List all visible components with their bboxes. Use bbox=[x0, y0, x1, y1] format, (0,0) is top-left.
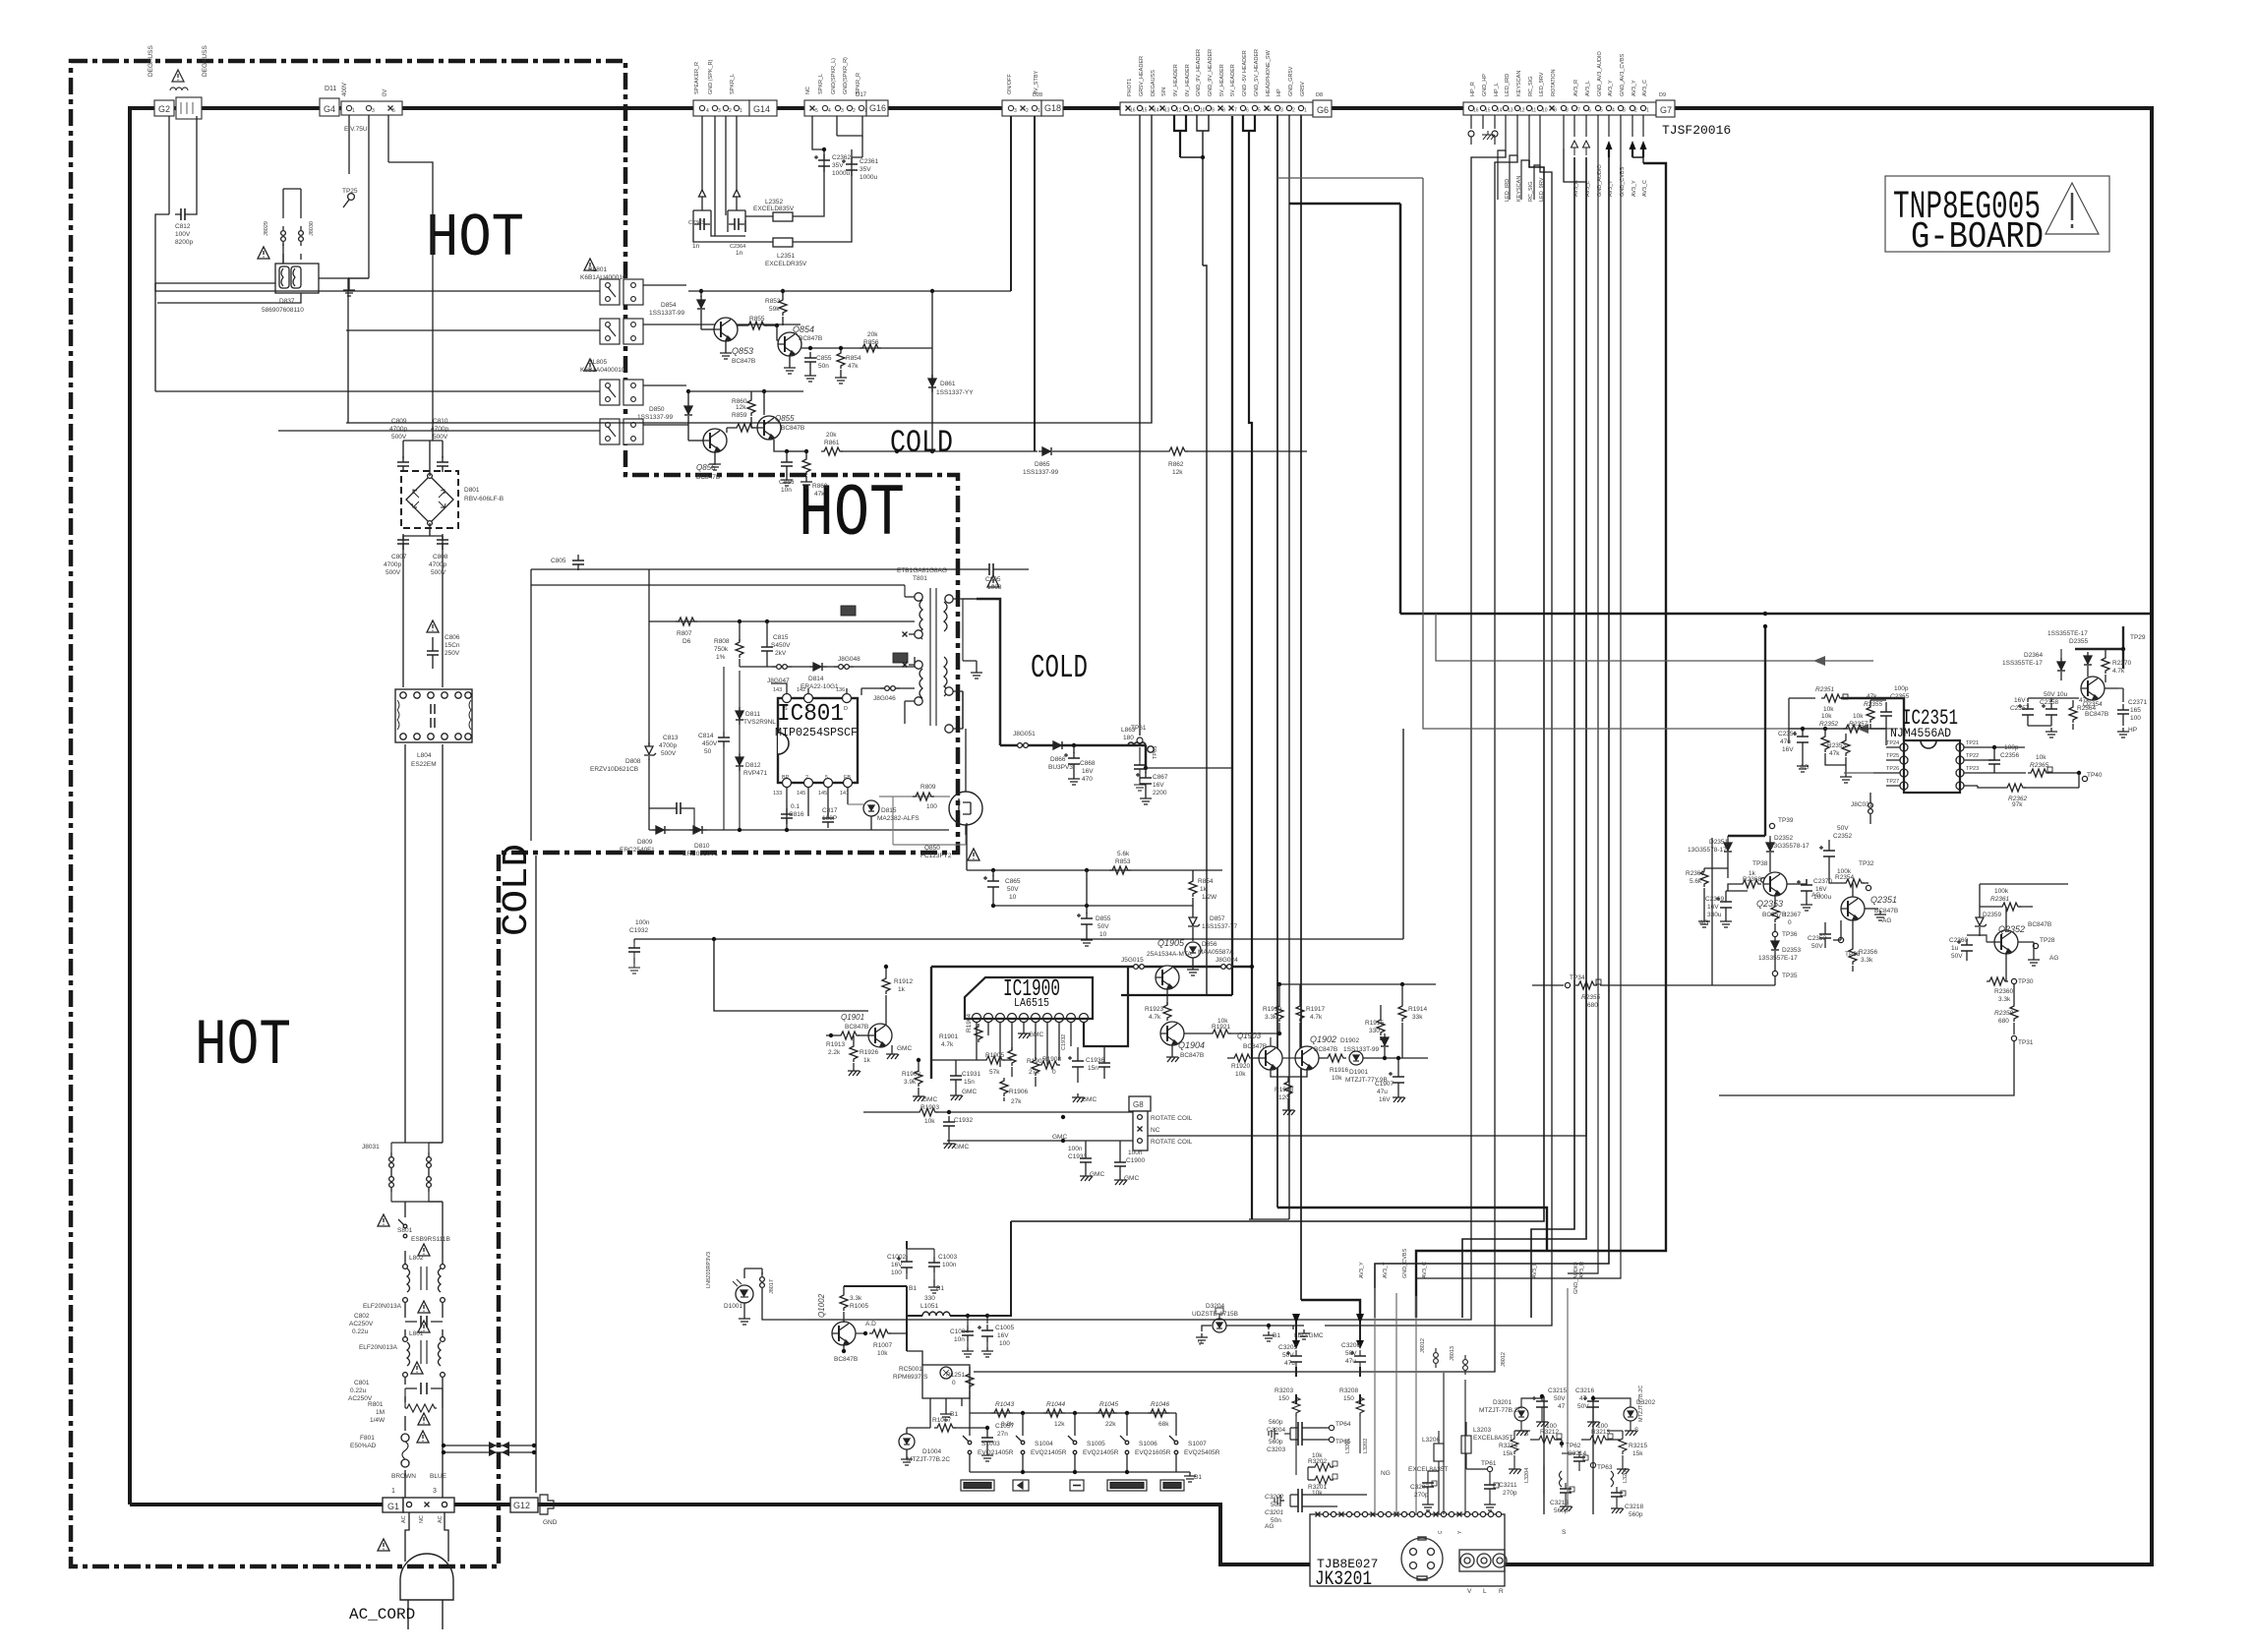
svg-text:R853: R853 bbox=[1115, 858, 1131, 865]
transistor Q1903 bbox=[1259, 1046, 1282, 1070]
jumper J8G047 bbox=[772, 665, 792, 670]
inductor L2352 EXCELD835V bbox=[773, 212, 793, 221]
svg-text:R1913: R1913 bbox=[826, 1041, 846, 1048]
s-video bbox=[1401, 1537, 1507, 1580]
svg-text:V: V bbox=[1467, 1588, 1472, 1595]
svg-text:ERC2540F1: ERC2540F1 bbox=[620, 847, 655, 854]
svg-text:T801: T801 bbox=[913, 575, 927, 582]
svg-text:Q853: Q853 bbox=[732, 346, 753, 356]
svg-text:C814: C814 bbox=[698, 733, 714, 739]
resistor R1913 2.2k bbox=[838, 1032, 860, 1039]
svg-text:C805: C805 bbox=[985, 576, 1001, 583]
svg-text:J8012: J8012 bbox=[1501, 1352, 1507, 1367]
svg-text:3: 3 bbox=[1014, 108, 1017, 114]
zener D1004 MTZJT-77B.2C bbox=[899, 1434, 915, 1449]
capacitor C868 470u bbox=[1064, 752, 1080, 770]
wire GND_AV3_AUDIO bbox=[1568, 145, 1598, 1273]
svg-text:G8: G8 bbox=[1133, 1100, 1144, 1109]
svg-text:1SS133T-99: 1SS133T-99 bbox=[649, 310, 685, 317]
resistor R3201 10k bbox=[1312, 1476, 1334, 1484]
wire AV3_R bbox=[1531, 157, 1574, 1318]
svg-text:RVP471: RVP471 bbox=[743, 770, 767, 777]
svg-text:DEGAUSS: DEGAUSS bbox=[148, 45, 154, 77]
diode D811 bbox=[736, 707, 743, 725]
svg-text:GMC: GMC bbox=[962, 1089, 977, 1095]
resistor R2367 0 bbox=[1771, 904, 1779, 922]
svg-text:50V: 50V bbox=[1577, 1403, 1589, 1410]
svg-text:COLD: COLD bbox=[1031, 650, 1088, 686]
MOSFET Q850 FC123FY2 bbox=[949, 792, 982, 825]
svg-text:1: 1 bbox=[864, 108, 867, 114]
svg-text:50V: 50V bbox=[1345, 1350, 1357, 1357]
svg-text:R1904: R1904 bbox=[966, 1013, 973, 1032]
svg-text:47k: 47k bbox=[1829, 750, 1840, 757]
svg-text:180: 180 bbox=[1123, 735, 1134, 741]
svg-text:10: 10 bbox=[1009, 894, 1017, 901]
svg-text:R1902: R1902 bbox=[902, 1071, 921, 1078]
jumper J8G048 bbox=[834, 665, 854, 670]
grey signal wires w/ labels above jack bbox=[1375, 1288, 1416, 1514]
resistor R1919 3.3k bbox=[1275, 1003, 1283, 1022]
svg-text:C805: C805 bbox=[551, 558, 566, 564]
resistor R1043 8.8k bbox=[991, 1409, 1013, 1417]
svg-text:1000u: 1000u bbox=[832, 170, 850, 177]
svg-text:C817: C817 bbox=[822, 807, 838, 814]
svg-text:50V: 50V bbox=[1282, 1352, 1294, 1359]
capacitor C1936 15n bbox=[1098, 1057, 1110, 1073]
capacitor C3213 560p bbox=[1560, 1483, 1572, 1499]
svg-text:97k: 97k bbox=[2012, 801, 2023, 808]
svg-text:S: S bbox=[1562, 1529, 1567, 1536]
svg-text:LA6515: LA6515 bbox=[1014, 997, 1049, 1010]
svg-text:D3201: D3201 bbox=[1493, 1399, 1513, 1406]
resistor R1906 27k bbox=[1000, 1078, 1008, 1096]
svg-text:R1921: R1921 bbox=[1212, 1024, 1231, 1031]
svg-text:47: 47 bbox=[1558, 1403, 1566, 1410]
svg-text:R1917: R1917 bbox=[1306, 1006, 1326, 1013]
top rail from bridge+ to transformer bbox=[531, 569, 983, 841]
svg-text:D8: D8 bbox=[1316, 92, 1323, 98]
svg-text:BP: BP bbox=[782, 775, 790, 781]
svg-text:4: 4 bbox=[1269, 108, 1272, 114]
svg-text:D866: D866 bbox=[1050, 756, 1066, 763]
connector G2 bbox=[154, 100, 174, 116]
svg-text:14: 14 bbox=[1497, 108, 1503, 114]
svg-text:B1: B1 bbox=[909, 1285, 917, 1292]
svg-text:F801: F801 bbox=[360, 1435, 375, 1442]
svg-text:0V: 0V bbox=[383, 89, 388, 96]
resistor R2352 10k bbox=[1821, 734, 1829, 752]
svg-text:AV3_Y: AV3_Y bbox=[1608, 180, 1614, 197]
svg-text:RL801: RL801 bbox=[588, 266, 608, 273]
svg-text:L804: L804 bbox=[417, 752, 432, 759]
svg-text:L3204: L3204 bbox=[1524, 1468, 1530, 1483]
svg-text:1k: 1k bbox=[863, 1057, 871, 1064]
resistor R1908 0 bbox=[1038, 1061, 1060, 1069]
svg-text:0: 0 bbox=[952, 1380, 956, 1386]
svg-text:12k: 12k bbox=[1172, 469, 1183, 476]
svg-text:L2351: L2351 bbox=[777, 253, 795, 260]
svg-text:MIP0254SPSCF: MIP0254SPSCF bbox=[775, 726, 858, 739]
svg-text:C856: C856 bbox=[779, 479, 795, 486]
svg-text:NJM4556AD: NJM4556AD bbox=[1890, 727, 1951, 740]
svg-text:12: 12 bbox=[1176, 108, 1182, 114]
svg-text:560p: 560p bbox=[1269, 1439, 1283, 1445]
svg-text:B1: B1 bbox=[936, 1285, 944, 1292]
svg-text:C3202: C3202 bbox=[1265, 1494, 1284, 1501]
svg-text:141: 141 bbox=[840, 791, 849, 796]
wires ON/OFF and 9V_STBY bbox=[1011, 116, 1035, 451]
svg-text:R2351: R2351 bbox=[1815, 686, 1835, 693]
G6/G7 vertical pin labels bbox=[1007, 49, 1666, 202]
svg-text:AC250V: AC250V bbox=[349, 1321, 374, 1327]
svg-text:EXCELD835V: EXCELD835V bbox=[753, 206, 795, 212]
svg-text:TP61: TP61 bbox=[1481, 1460, 1497, 1467]
wire 9R5V to Q2353 bbox=[1764, 626, 1766, 836]
svg-text:MA2382-ALFS: MA2382-ALFS bbox=[877, 815, 919, 822]
svg-text:C802: C802 bbox=[354, 1313, 370, 1320]
svg-text:C2358: C2358 bbox=[2040, 699, 2059, 706]
svg-text:D811: D811 bbox=[745, 711, 760, 718]
resistor R1007 10k bbox=[869, 1329, 891, 1337]
svg-text:50V: 50V bbox=[1007, 886, 1019, 893]
svg-text:500V: 500V bbox=[661, 750, 677, 757]
svg-text:C865: C865 bbox=[1005, 878, 1021, 885]
svg-text:8: 8 bbox=[1222, 108, 1225, 114]
svg-text:16: 16 bbox=[1130, 108, 1136, 114]
svg-text:C867: C867 bbox=[1153, 774, 1168, 781]
svg-text:EVQ21405R: EVQ21405R bbox=[978, 1449, 1014, 1456]
svg-text:3: 3 bbox=[1623, 108, 1626, 114]
G4 wires down bbox=[348, 115, 369, 278]
jumper J8012 bbox=[1434, 1348, 1439, 1368]
svg-text:AV3_L: AV3_L bbox=[1585, 81, 1591, 96]
svg-text:S1004: S1004 bbox=[1035, 1441, 1053, 1447]
svg-text:C813: C813 bbox=[663, 735, 679, 741]
svg-text:D11: D11 bbox=[325, 86, 336, 92]
capacitor C3211 270p bbox=[1484, 1479, 1496, 1495]
svg-text:R1914: R1914 bbox=[1408, 1006, 1428, 1013]
svg-text:J8030: J8030 bbox=[309, 221, 315, 236]
TP34/R2355 bbox=[1532, 984, 1564, 986]
diode D865 bbox=[1038, 447, 1056, 455]
resistor R1914 33k bbox=[1398, 1003, 1406, 1022]
svg-text:C1932: C1932 bbox=[629, 927, 649, 934]
svg-text:R1045: R1045 bbox=[1099, 1401, 1119, 1408]
capacitor C1005 100u bbox=[978, 1325, 993, 1342]
svg-text:R2356: R2356 bbox=[1859, 949, 1878, 956]
opto-coupler D815 MA2382-ALFS bbox=[863, 800, 879, 816]
resistor R809 100 bbox=[913, 793, 934, 800]
resistor R3213 100 bbox=[1587, 1436, 1609, 1444]
svg-text:330u: 330u bbox=[1707, 912, 1722, 918]
resistor R1918 120 bbox=[1284, 1079, 1292, 1097]
resistor R1915 330 bbox=[1377, 1017, 1385, 1035]
svg-text:R3203: R3203 bbox=[1275, 1387, 1294, 1394]
inductor L3203 EXCEL8A35T bbox=[1461, 1436, 1471, 1453]
svg-text:AG: AG bbox=[1800, 764, 1809, 771]
resistor R1017 10k bbox=[934, 1424, 956, 1432]
diode D2352 bbox=[1766, 839, 1774, 856]
svg-text:ES22EM: ES22EM bbox=[411, 761, 437, 768]
svg-text:R1919: R1919 bbox=[1263, 1006, 1282, 1013]
capacitor C2369 330u bbox=[1716, 896, 1732, 914]
svg-text:HP: HP bbox=[2128, 727, 2137, 734]
svg-text:C2353: C2353 bbox=[1808, 935, 1827, 942]
svg-text:R853: R853 bbox=[765, 298, 781, 305]
svg-text:BC847B: BC847B bbox=[781, 425, 804, 432]
capacitor C2357 bbox=[2018, 703, 2034, 721]
svg-text:AV3_C: AV3_C bbox=[1422, 1262, 1428, 1278]
svg-text:3.9k: 3.9k bbox=[904, 1079, 917, 1086]
svg-text:Q2351: Q2351 bbox=[1870, 895, 1897, 905]
capacitor C1002 100u bbox=[897, 1256, 913, 1273]
capacitor C3215 47u bbox=[1532, 1395, 1548, 1413]
svg-text:D2364: D2364 bbox=[2024, 652, 2044, 659]
svg-text:S1003: S1003 bbox=[981, 1441, 1000, 1447]
svg-text:NC: NC bbox=[1151, 1127, 1160, 1134]
svg-text:L3205: L3205 bbox=[1623, 1468, 1629, 1483]
svg-text:150: 150 bbox=[1343, 1395, 1354, 1402]
capacitor C2356 100p bbox=[1988, 754, 2000, 770]
svg-text:0.22u: 0.22u bbox=[352, 1328, 369, 1335]
connector G8 (rotate coil) bbox=[1129, 1096, 1151, 1111]
svg-text:50: 50 bbox=[704, 748, 712, 755]
svg-text:50n: 50n bbox=[818, 363, 829, 370]
wire DEGAUSS bbox=[346, 115, 1152, 423]
svg-text:3: 3 bbox=[372, 108, 375, 114]
svg-text:100: 100 bbox=[1597, 1423, 1608, 1430]
svg-text:R856: R856 bbox=[863, 339, 879, 346]
svg-text:330: 330 bbox=[924, 1295, 935, 1302]
resistor R1923 4.7k bbox=[1163, 1002, 1171, 1021]
svg-text:GND_CVBS: GND_CVBS bbox=[1620, 166, 1626, 197]
svg-text:10k: 10k bbox=[1823, 706, 1834, 713]
capacitor C1932 47u bbox=[1068, 1055, 1084, 1073]
svg-text:COLD: COLD bbox=[497, 844, 537, 936]
svg-text:R1916: R1916 bbox=[1330, 1067, 1349, 1074]
boundary crossing wires with arrows bbox=[444, 1445, 534, 1452]
svg-text:GR5V: GR5V bbox=[1300, 82, 1306, 96]
svg-text:C2352: C2352 bbox=[1833, 833, 1853, 840]
line filter L804 ES22EM bbox=[395, 689, 472, 742]
svg-text:16V: 16V bbox=[1782, 746, 1794, 753]
svg-text:TP21: TP21 bbox=[1966, 740, 1979, 746]
svg-text:A.D: A.D bbox=[865, 1321, 876, 1327]
svg-text:4.7k: 4.7k bbox=[941, 1041, 954, 1048]
svg-text:6: 6 bbox=[1246, 108, 1249, 114]
svg-text:500V: 500V bbox=[391, 434, 407, 441]
transistor Q854 bbox=[778, 332, 801, 356]
resistor R1917 4.7k bbox=[1296, 1003, 1304, 1022]
svg-text:TP29: TP29 bbox=[2130, 634, 2146, 641]
svg-text:E.V.75U: E.V.75U bbox=[344, 126, 368, 133]
svg-text:1n: 1n bbox=[736, 250, 743, 257]
svg-text:BC847B: BC847B bbox=[834, 1356, 858, 1363]
input network left bbox=[1789, 697, 1815, 699]
capacitor C2361 1000u bbox=[842, 158, 858, 176]
svg-text:C2371: C2371 bbox=[2128, 699, 2148, 706]
svg-text:D850: D850 bbox=[649, 406, 665, 413]
svg-text:SPKR_L: SPKR_L bbox=[730, 74, 736, 94]
svg-text:C1002: C1002 bbox=[887, 1254, 907, 1261]
svg-text:HP_R: HP_R bbox=[1470, 82, 1476, 96]
resistor R2355 47k bbox=[1867, 704, 1874, 723]
capacitor C1900 100n bbox=[1114, 1156, 1126, 1172]
svg-text:1SS1337-99: 1SS1337-99 bbox=[1023, 469, 1059, 476]
svg-text:2: 2 bbox=[729, 108, 732, 114]
svg-text:LN8Z03RP3V3: LN8Z03RP3V3 bbox=[706, 1252, 712, 1288]
svg-text:C2351: C2351 bbox=[1778, 731, 1798, 737]
svg-text:AV3_Y: AV3_Y bbox=[1608, 80, 1614, 96]
svg-text:K6B1AU400010: K6B1AU400010 bbox=[580, 274, 626, 281]
zener D2359 bbox=[1975, 914, 1987, 931]
resistor R1902 3.9k bbox=[915, 1068, 922, 1087]
svg-text:35V: 35V bbox=[832, 162, 844, 169]
svg-text:D2359: D2359 bbox=[1983, 912, 2002, 918]
svg-text:BC847B: BC847B bbox=[799, 335, 822, 342]
svg-text:Q856: Q856 bbox=[696, 463, 716, 472]
svg-text:586907608110: 586907608110 bbox=[262, 307, 304, 314]
svg-text:TP34: TP34 bbox=[1570, 974, 1585, 981]
svg-text:TP31: TP31 bbox=[2018, 1039, 2034, 1046]
svg-text:1SS1337-YY: 1SS1337-YY bbox=[936, 389, 974, 396]
resistor R855 bbox=[745, 322, 767, 329]
svg-text:G1: G1 bbox=[387, 1502, 399, 1511]
switches S1003-S1007 EVQ21405R bbox=[963, 1436, 972, 1454]
svg-text:3: 3 bbox=[841, 108, 844, 114]
svg-text:6: 6 bbox=[1588, 108, 1591, 114]
svg-text:250V: 250V bbox=[445, 650, 460, 657]
capacitor C2362 1000u bbox=[814, 154, 830, 172]
svg-text:15k: 15k bbox=[1503, 1450, 1513, 1457]
capacitor C805 bbox=[983, 563, 999, 575]
svg-text:8.8k: 8.8k bbox=[1001, 1421, 1014, 1428]
L3204 / C3213 bbox=[1543, 1465, 1545, 1495]
svg-text:9: 9 bbox=[1554, 108, 1557, 114]
svg-text:AV3_R: AV3_R bbox=[1573, 180, 1579, 197]
svg-text:5.6k: 5.6k bbox=[1690, 878, 1702, 885]
svg-text:D856: D856 bbox=[1202, 941, 1217, 948]
svg-text:ROTATION: ROTATION bbox=[1551, 69, 1557, 96]
svg-text:D812: D812 bbox=[745, 762, 761, 769]
jumper J8G024 bbox=[1216, 965, 1236, 970]
svg-text:680: 680 bbox=[1998, 1018, 2009, 1025]
svg-text:GND_CVBS: GND_CVBS bbox=[1402, 1248, 1408, 1278]
svg-text:4: 4 bbox=[706, 108, 709, 114]
resistor R862 12k bbox=[1166, 447, 1188, 455]
transistor Q856 bbox=[703, 429, 727, 452]
svg-text:C3201: C3201 bbox=[1265, 1509, 1284, 1516]
resistor R3214 15k bbox=[1511, 1436, 1518, 1454]
svg-text:GND_AUDIO: GND_AUDIO bbox=[1573, 1262, 1579, 1294]
svg-text:2200: 2200 bbox=[1153, 790, 1167, 796]
svg-text:AV3_C: AV3_C bbox=[1642, 180, 1648, 197]
svg-text:C1005: C1005 bbox=[995, 1325, 1015, 1331]
svg-text:R1005: R1005 bbox=[850, 1303, 869, 1310]
jumper J8013 bbox=[1463, 1355, 1468, 1375]
svg-text:100: 100 bbox=[926, 803, 937, 810]
svg-text:50V: 50V bbox=[1554, 1395, 1566, 1402]
svg-text:Q2353: Q2353 bbox=[1756, 899, 1783, 909]
svg-text:47u: 47u bbox=[1780, 738, 1791, 745]
resistor R856 20k bbox=[860, 344, 881, 352]
relay RL801 K6B1AU400010 bbox=[600, 279, 620, 305]
diode D2351 bbox=[1724, 839, 1732, 856]
svg-text:470: 470 bbox=[1082, 776, 1093, 783]
svg-text:C2370: C2370 bbox=[1813, 878, 1833, 885]
capacitors C3202/C3201 50n bbox=[1292, 1489, 1308, 1501]
inductor L1051 330 bbox=[922, 1312, 950, 1316]
resistor R2368 1k bbox=[1740, 880, 1761, 888]
wire LED_9RV bbox=[1325, 165, 1552, 1326]
svg-text:7: 7 bbox=[1234, 108, 1237, 114]
svg-text:R3212: R3212 bbox=[1540, 1429, 1560, 1436]
resistor R807 bbox=[676, 618, 697, 625]
svg-text:TP25: TP25 bbox=[342, 188, 358, 195]
svg-text:C1003: C1003 bbox=[938, 1254, 958, 1261]
capacitor C1931 15n bbox=[950, 1070, 962, 1086]
svg-text:3: 3 bbox=[1280, 108, 1283, 114]
transistor Q2352 bbox=[1994, 930, 2018, 954]
svg-text:D810: D810 bbox=[694, 843, 710, 850]
svg-text:ERZV10D621CB: ERZV10D621CB bbox=[590, 766, 638, 773]
svg-text:ETB1GA81G8AG: ETB1GA81G8AG bbox=[897, 567, 947, 574]
svg-text:EXCEL8A35T: EXCEL8A35T bbox=[1473, 1435, 1513, 1442]
svg-text:C1907: C1907 bbox=[1375, 1081, 1394, 1088]
svg-text:L3206: L3206 bbox=[1422, 1437, 1440, 1444]
svg-text:10: 10 bbox=[1099, 931, 1107, 938]
svg-text:GND_HP: GND_HP bbox=[1482, 74, 1488, 96]
svg-text:20k: 20k bbox=[867, 331, 878, 338]
svg-text:J8G047: J8G047 bbox=[767, 678, 790, 684]
svg-text:SPKR_L: SPKR_L bbox=[818, 74, 824, 94]
svg-text:5V_HEADER: 5V_HEADER bbox=[1219, 64, 1225, 96]
svg-text:R1918: R1918 bbox=[1275, 1087, 1294, 1093]
svg-text:TP36: TP36 bbox=[1782, 931, 1798, 938]
svg-text:120: 120 bbox=[1278, 1094, 1289, 1101]
diode D809 bbox=[652, 826, 670, 834]
svg-text:TP35: TP35 bbox=[1782, 973, 1798, 979]
svg-text:Q2352: Q2352 bbox=[1998, 924, 2025, 934]
svg-text:C3213: C3213 bbox=[1550, 1500, 1570, 1506]
svg-text:AG: AG bbox=[1699, 919, 1708, 926]
jumpers J8029/J8030 bbox=[281, 226, 286, 246]
svg-text:R854: R854 bbox=[1198, 878, 1214, 885]
svg-text:C810: C810 bbox=[433, 418, 448, 425]
degauss posistor D837 bbox=[275, 264, 319, 293]
resistor R2357 10k bbox=[1843, 725, 1865, 733]
svg-text:16V: 16V bbox=[1815, 886, 1827, 893]
svg-text:35V: 35V bbox=[860, 166, 871, 173]
connector G14 (speaker) bbox=[693, 100, 749, 116]
svg-text:GMC: GMC bbox=[1090, 1171, 1104, 1178]
svg-text:DEGAUSS: DEGAUSS bbox=[202, 45, 208, 77]
jumpers J8031-34 bbox=[405, 1143, 443, 1202]
svg-text:8: 8 bbox=[1566, 108, 1569, 114]
svg-text:GND_9V_HEADER: GND_9V_HEADER bbox=[1196, 49, 1202, 96]
svg-text:8200p: 8200p bbox=[175, 239, 193, 246]
svg-text:D1004: D1004 bbox=[922, 1448, 942, 1455]
TP64/65 + caps bbox=[1329, 1425, 1334, 1430]
svg-text:R2353: R2353 bbox=[1827, 742, 1847, 749]
capacitor C2355 100p bbox=[1880, 706, 1892, 722]
capacitors C809/C810 bbox=[397, 456, 409, 472]
svg-text:100k: 100k bbox=[1994, 888, 2009, 895]
resistor R2362 97k bbox=[2004, 784, 2026, 792]
svg-text:400V: 400V bbox=[342, 83, 348, 96]
svg-text:TP63: TP63 bbox=[1597, 1464, 1613, 1471]
